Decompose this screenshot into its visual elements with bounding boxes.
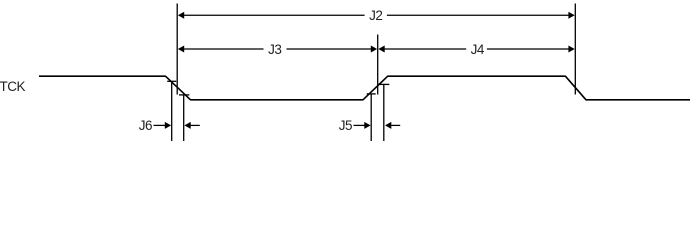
dimension J2: left shaft xyxy=(184,14,365,16)
dimension J2: right shaft xyxy=(387,14,569,16)
dimension J3: left arrowhead xyxy=(178,46,184,53)
svg-text:J4: J4 xyxy=(471,42,485,57)
dimension J5: opposing shaft xyxy=(391,124,400,126)
svg-text:TCK: TCK xyxy=(0,79,25,94)
dimension J2: left arrowhead xyxy=(178,12,184,19)
vertical reference line: rising-edge midpoint (J3/J4 boundary) xyxy=(377,35,379,95)
TCK waveform xyxy=(39,76,690,100)
dimension J5: leader shaft xyxy=(354,124,366,126)
dimension J6: right-pointing arrowhead xyxy=(165,122,171,129)
dimension J3: right shaft xyxy=(287,48,372,50)
dimension J5: opposing left-pointing arrowhead xyxy=(385,122,391,129)
vertical reference line: rising-edge end (right boundary of J5) xyxy=(383,84,385,141)
dimension J6: opposing left-pointing arrowhead xyxy=(184,122,190,129)
svg-text:J5: J5 xyxy=(339,118,352,133)
dimension J4: left shaft xyxy=(385,48,467,50)
dimension J5: right-pointing arrowhead xyxy=(364,122,370,129)
tick: rising-edge upper reference level xyxy=(378,83,389,85)
dimension J2: right arrowhead xyxy=(568,12,574,19)
svg-text:J3: J3 xyxy=(268,42,281,57)
svg-text:J6: J6 xyxy=(139,118,152,133)
dimension J6: leader shaft xyxy=(154,124,166,126)
vertical reference line: falling-edge end (right boundary of J6) xyxy=(183,95,185,141)
vertical reference line: falling-edge start (left boundary of J6) xyxy=(171,81,173,141)
svg-text:J2: J2 xyxy=(369,8,382,23)
dimension J3: right arrowhead xyxy=(371,46,377,53)
vertical reference line: rising-edge start (left boundary of J5) xyxy=(370,94,372,141)
tick: rising-edge lower reference level xyxy=(367,93,376,95)
tick: falling-edge lower reference level xyxy=(179,94,189,96)
dimension J4: right arrowhead xyxy=(568,46,574,53)
dimension J4: left arrowhead xyxy=(378,46,384,53)
dimension J6: opposing shaft xyxy=(190,124,199,126)
dimension J3: left shaft xyxy=(184,48,264,50)
dimension J4: right shaft xyxy=(487,48,569,50)
tick: falling-edge upper reference level xyxy=(167,80,176,82)
vertical reference line: second falling-edge midpoint (right boundary of J2/J4) xyxy=(574,4,576,95)
vertical reference line: falling-edge midpoint (left boundary of J2/J3) xyxy=(176,4,178,95)
